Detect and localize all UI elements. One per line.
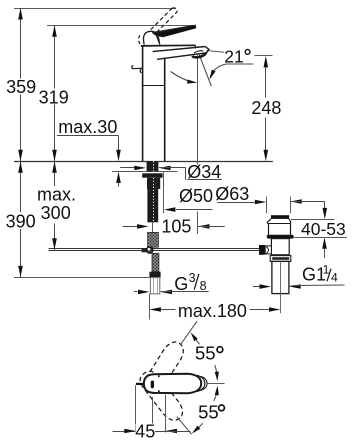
svg-text:45: 45 <box>135 421 155 441</box>
svg-text:55: 55 <box>195 343 216 364</box>
svg-text:319: 319 <box>39 88 69 108</box>
svg-text:max.180: max.180 <box>178 301 247 321</box>
svg-text:Ø50: Ø50 <box>179 186 213 206</box>
svg-text:max.: max. <box>37 185 76 205</box>
svg-text:300: 300 <box>41 203 71 223</box>
svg-text:40-53: 40-53 <box>301 219 346 239</box>
svg-text:21: 21 <box>224 46 243 66</box>
svg-text:8: 8 <box>200 279 207 293</box>
svg-text:G: G <box>174 274 188 294</box>
svg-text:390: 390 <box>6 212 36 232</box>
svg-text:Ø63: Ø63 <box>215 184 249 204</box>
svg-text:max.30: max.30 <box>58 117 117 137</box>
svg-text:4: 4 <box>331 271 338 285</box>
svg-text:105: 105 <box>161 217 191 237</box>
svg-text:3: 3 <box>189 271 196 285</box>
svg-text:359: 359 <box>6 77 36 97</box>
svg-text:55: 55 <box>198 401 219 422</box>
svg-text:248: 248 <box>251 98 281 118</box>
svg-text:Ø34: Ø34 <box>187 162 221 182</box>
